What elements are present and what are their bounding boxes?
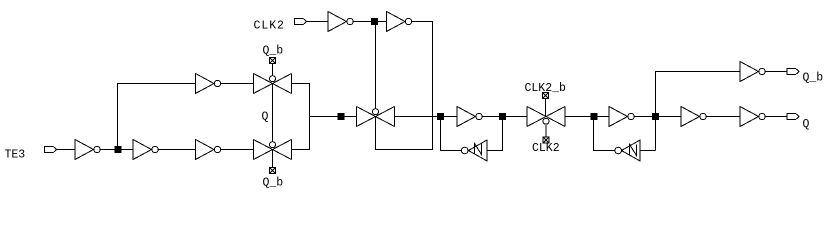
wire xyxy=(766,71,788,73)
transmission gate TG1 bottom xyxy=(254,140,292,160)
wire xyxy=(635,116,682,118)
keeper inverter K2 xyxy=(615,140,640,161)
wire xyxy=(272,64,274,76)
junction J7 xyxy=(652,113,659,120)
transmission gate TG3 xyxy=(527,107,565,127)
output port Q_b xyxy=(787,68,799,74)
wire xyxy=(292,84,310,150)
transmission gate TG1 top xyxy=(254,74,292,94)
wire xyxy=(272,150,274,168)
wire xyxy=(545,125,547,137)
svg-text:TE3: TE3 xyxy=(5,149,26,162)
wire xyxy=(656,72,741,151)
wire xyxy=(545,99,547,117)
wire xyxy=(483,116,528,118)
wire xyxy=(307,21,329,23)
svg-text:Q_b: Q_b xyxy=(803,72,824,85)
output port Q xyxy=(787,113,799,119)
junction J4 xyxy=(437,113,444,120)
input port TE3 xyxy=(45,146,57,152)
inverter I5 xyxy=(328,12,353,32)
svg-text:Q: Q xyxy=(803,118,810,131)
inverter I4 xyxy=(196,74,221,94)
wire xyxy=(354,21,387,23)
inverter I9 xyxy=(681,107,706,127)
wire xyxy=(565,116,609,118)
wire keeper2 left xyxy=(594,117,616,151)
pin Q_b bottom xyxy=(270,168,276,174)
pin CLK2_b xyxy=(543,93,549,99)
wire xyxy=(310,116,357,118)
inverter I7 xyxy=(457,107,482,127)
svg-text:Q: Q xyxy=(262,111,269,124)
wire xyxy=(221,149,254,151)
junction J2 xyxy=(338,113,345,120)
inverter I2 xyxy=(133,140,158,160)
inverter I3 xyxy=(196,140,221,160)
wire xyxy=(221,83,254,85)
svg-text:Q_b: Q_b xyxy=(263,177,284,190)
inverter I1 xyxy=(75,140,100,160)
wire CLK2_b control xyxy=(375,25,377,108)
svg-text:CLK2: CLK2 xyxy=(254,20,285,33)
svg-text:Q_b: Q_b xyxy=(263,45,284,58)
wire xyxy=(376,22,433,150)
inverter I8 xyxy=(609,107,634,127)
wire keeper1 left xyxy=(441,117,462,151)
wire xyxy=(57,149,76,151)
input port CLK2 xyxy=(295,18,307,24)
wire xyxy=(101,149,134,151)
pin Q_b top xyxy=(270,58,276,64)
wire keeper2 right xyxy=(640,150,656,152)
keeper inverter K1 xyxy=(461,140,487,161)
wire xyxy=(766,116,788,118)
inverter I11 xyxy=(740,62,765,82)
wire xyxy=(395,116,458,118)
wire xyxy=(707,116,741,118)
wire xyxy=(159,149,196,151)
wire keeper1 right xyxy=(487,117,503,151)
inverter I6 xyxy=(387,12,412,32)
junction J6 xyxy=(591,113,598,120)
wire xyxy=(118,84,196,150)
svg-text:CLK2: CLK2 xyxy=(532,142,560,155)
inverter I10 xyxy=(740,107,765,127)
junction J3 xyxy=(371,18,378,25)
pin CLK2 bottom xyxy=(543,137,549,143)
transmission gate TG2 xyxy=(357,107,395,127)
junction J1 xyxy=(115,146,122,153)
wire xyxy=(272,84,274,142)
junction J5 xyxy=(499,113,506,120)
